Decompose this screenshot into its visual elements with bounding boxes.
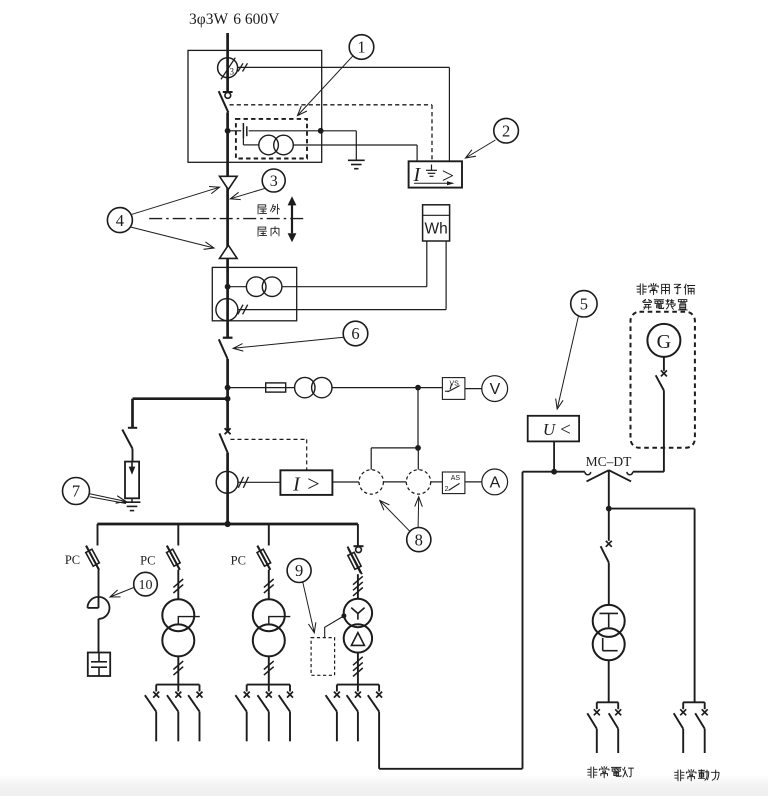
svg-text:A: A [490,474,501,491]
svg-text:PC: PC [140,554,155,568]
svg-text:3: 3 [229,67,234,77]
svg-text:U: U [543,420,557,439]
svg-text:MC–DT: MC–DT [586,454,633,469]
svg-text:PC: PC [65,553,80,567]
svg-text:I: I [292,474,301,496]
svg-text:PC: PC [231,554,246,568]
svg-text:7: 7 [72,482,80,501]
svg-text:8: 8 [415,530,423,549]
svg-text:2: 2 [445,486,449,493]
svg-text:Wh: Wh [424,221,447,238]
svg-text:6: 6 [351,324,359,343]
svg-text:10: 10 [139,578,153,593]
svg-text:AS: AS [451,475,461,482]
svg-text:>: > [307,471,319,496]
svg-text:G: G [657,331,671,353]
svg-text:9: 9 [295,561,303,580]
svg-text:V: V [490,381,501,398]
svg-text:2: 2 [502,121,510,140]
svg-text:<: < [560,420,571,441]
svg-text:5: 5 [580,294,588,313]
svg-text:4: 4 [116,211,124,230]
svg-text:3φ3W 6 600V: 3φ3W 6 600V [189,11,280,28]
svg-text:1: 1 [357,38,365,57]
svg-text:3: 3 [270,173,278,190]
